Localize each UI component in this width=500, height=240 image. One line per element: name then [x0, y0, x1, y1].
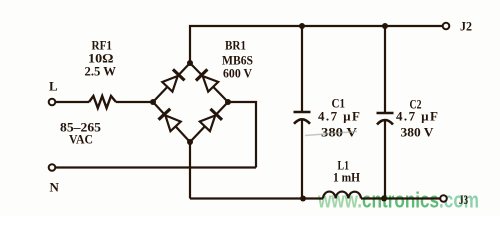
terminal N — [49, 164, 56, 171]
svg-text:1 mH: 1 mH — [333, 170, 360, 185]
svg-text:4.7 µF: 4.7 µF — [318, 109, 360, 124]
diode D4 bottom-right — [199, 109, 222, 132]
inductor L1 — [323, 192, 361, 199]
junction C1 top — [299, 23, 305, 29]
wire N input — [56, 166, 257, 168]
svg-text:4.7 µF: 4.7 µF — [396, 109, 438, 124]
faint watermark artifact over C1 voltage — [305, 132, 357, 136]
svg-text:BR1: BR1 — [225, 38, 246, 53]
junction node bridge bottom — [187, 139, 193, 145]
wire L input — [56, 101, 154, 103]
capacitor C2 — [377, 112, 394, 115]
capacitor C1 — [294, 111, 311, 114]
watermark www.cntronics.com — [317, 188, 479, 213]
junction node bridge left — [150, 99, 156, 105]
bridge BR1 arm top-right — [190, 63, 228, 102]
wire C2 branch — [384, 26, 386, 199]
terminal J3 — [440, 195, 447, 202]
svg-text:2.5 W: 2.5 W — [85, 64, 117, 79]
junction node bridge right — [225, 99, 231, 105]
wire C1 branch — [301, 26, 303, 199]
wire top rail to J2 — [190, 26, 443, 63]
svg-text:J2: J2 — [460, 19, 472, 34]
wire bottom rail — [190, 197, 440, 199]
bridge BR1 arm bottom-right — [190, 102, 228, 142]
junction node bridge top — [187, 60, 193, 66]
svg-text:VAC: VAC — [69, 132, 93, 147]
bridge BR1 arm bottom-left — [153, 102, 190, 142]
wire bridge bottom to bottom rail — [189, 142, 191, 199]
svg-text:L: L — [49, 79, 58, 94]
terminal J2 — [443, 23, 450, 30]
svg-text:380 V: 380 V — [401, 125, 435, 140]
diode D1 top-left — [162, 69, 185, 92]
svg-text:600 V: 600 V — [223, 66, 253, 81]
junction C1 bottom — [300, 196, 306, 202]
junction C2 bottom — [381, 196, 387, 202]
terminal L — [49, 99, 56, 106]
bridge BR1 arm top-left — [153, 63, 190, 102]
svg-text:N: N — [50, 180, 60, 195]
svg-text:J3: J3 — [459, 192, 468, 207]
resistor RF1 — [89, 96, 116, 108]
wire bridge right node to N rail — [228, 102, 256, 168]
diode D2 top-right — [196, 69, 219, 92]
diode D3 bottom-left — [158, 109, 181, 132]
junction C2 top — [382, 23, 388, 29]
